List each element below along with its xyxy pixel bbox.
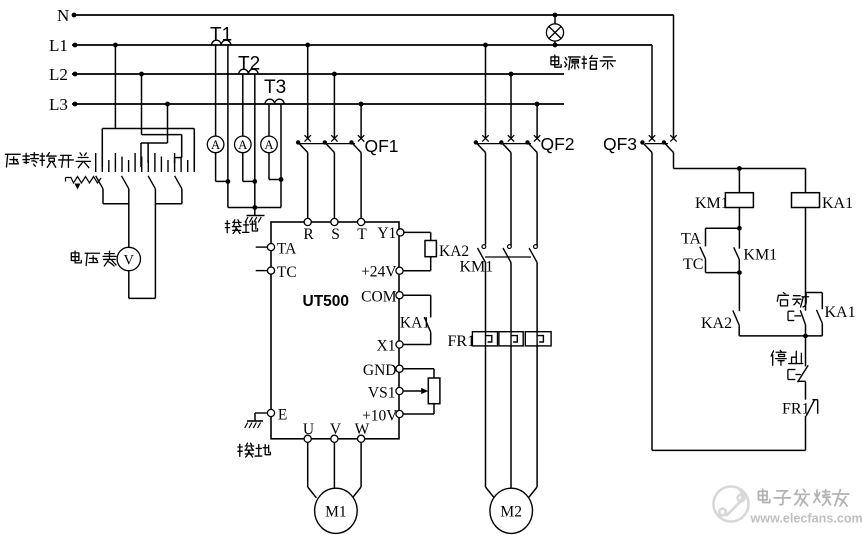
- node L3-switch: [165, 102, 170, 107]
- svg-text:M1: M1: [325, 504, 347, 521]
- node KM1 branch bottom: [737, 270, 742, 275]
- ground (ammeter secondary): [254, 208, 256, 216]
- svg-text:VS1: VS1: [368, 384, 396, 401]
- wire control bottom bus: [652, 449, 806, 451]
- coil KM1: [725, 193, 753, 208]
- wire rail N: [72, 14, 674, 16]
- node L1-switch: [113, 43, 118, 48]
- wire W to M1: [360, 442, 362, 487]
- wire switch feed row1: [102, 128, 194, 130]
- svg-text:A: A: [211, 138, 221, 152]
- wire lamp bottom: [554, 41, 556, 45]
- node L1-QF1: [305, 43, 310, 48]
- svg-text:W: W: [355, 421, 370, 438]
- stub TA: [256, 246, 268, 248]
- node KM1 branch top: [737, 226, 742, 231]
- svg-text:UT500: UT500: [303, 293, 350, 310]
- wire to KM1 coil: [738, 169, 740, 193]
- wire rail L3: [72, 103, 564, 105]
- wiper VS1 arrow: [403, 390, 422, 392]
- watermark logo: [714, 487, 749, 522]
- svg-text:V: V: [330, 421, 342, 438]
- terminal +24V: [396, 267, 403, 274]
- svg-text:+24V: +24V: [361, 263, 397, 280]
- label 接地 (lower): [238, 443, 254, 457]
- svg-text:KM1: KM1: [460, 259, 494, 276]
- svg-text:KA2: KA2: [439, 243, 469, 260]
- wire PA2 to T2 return: [242, 153, 244, 182]
- wire switch bottom bus left: [103, 203, 130, 205]
- wire QF2 pole2 down: [510, 153, 512, 246]
- contact KM1 aux (self hold): [738, 228, 740, 249]
- svg-text:TC: TC: [683, 256, 703, 273]
- rotary switch SA blades: [96, 176, 103, 189]
- svg-text:QF2: QF2: [541, 134, 575, 154]
- svg-text:U: U: [303, 421, 314, 438]
- label 接地 (upper): [225, 220, 241, 234]
- node lamp-N: [553, 13, 558, 18]
- svg-text:A: A: [238, 138, 248, 152]
- ammeter PA1: [207, 136, 224, 153]
- contact TA-TC (inverter relay): [700, 247, 706, 259]
- svg-text:KA1: KA1: [400, 314, 430, 331]
- node lamp-L1: [553, 43, 558, 48]
- breaker QF3: [649, 135, 655, 141]
- wire L3 to QF2 pole3: [536, 104, 538, 139]
- svg-text:www.elecfans.com: www.elecfans.com: [750, 512, 862, 526]
- terminal S: [331, 218, 338, 225]
- svg-text:FR1: FR1: [782, 401, 810, 418]
- node L1-QF2: [483, 43, 488, 48]
- breaker QF2: [482, 135, 488, 141]
- rotary switch SA contact ticks: [95, 153, 97, 172]
- wire FR1 to M2 mid: [510, 346, 512, 490]
- switch handle zigzag: [66, 177, 102, 184]
- terminal X1: [396, 341, 403, 348]
- terminal T: [358, 218, 365, 225]
- node bus-ground: [252, 205, 257, 210]
- terminal TC: [267, 267, 274, 274]
- motor M1: [315, 488, 358, 533]
- svg-text:COM: COM: [361, 288, 397, 305]
- wire lamp top: [554, 15, 556, 24]
- wire L1 to QF1 pole1: [307, 45, 309, 139]
- wire QF3 left rail: [651, 153, 653, 451]
- node N start: [72, 13, 77, 18]
- wire KA2 coil to +24V: [430, 257, 432, 271]
- current transformer T3: [265, 99, 284, 104]
- terminal TA: [267, 244, 274, 251]
- thermal relay FR1 heaters: [472, 332, 497, 346]
- node L1 start: [73, 43, 78, 48]
- ground (E terminal): [255, 412, 267, 414]
- wire TA branch: [706, 227, 740, 229]
- voltmeter PV: [117, 247, 140, 270]
- inverter UT500 box: [271, 222, 399, 439]
- wire QF1 to T: [360, 153, 362, 219]
- node control-rail KM1 tap: [737, 166, 742, 171]
- wire PA1 to T1 return: [215, 153, 217, 182]
- wire QF3 to control rail: [673, 153, 675, 169]
- svg-text:M2: M2: [500, 504, 522, 521]
- contactor KM1 main contacts: [482, 245, 486, 249]
- wire Y1 to KA2 coil: [403, 231, 431, 233]
- motor M2: [490, 488, 533, 533]
- label 启动: [777, 293, 788, 306]
- svg-text:A: A: [264, 138, 274, 152]
- svg-text:TA: TA: [681, 231, 701, 248]
- wire switch feed row2: [142, 134, 182, 136]
- node L2-switch: [139, 72, 144, 77]
- svg-text:N: N: [57, 6, 69, 25]
- stub TC: [256, 270, 268, 272]
- pushbutton 启动 SB1 (NO): [805, 293, 807, 311]
- wire FR1 to M2 right: [536, 346, 538, 487]
- wire N to QF3 pole2: [673, 15, 675, 139]
- node T2 junction: [252, 179, 257, 184]
- svg-text:QF3: QF3: [603, 134, 637, 154]
- wire QF1 to S: [333, 153, 335, 219]
- breaker QF1: [305, 135, 311, 141]
- terminal VS1: [396, 387, 403, 394]
- wire QF2 pole1 down: [485, 153, 487, 245]
- ammeter PA2: [235, 136, 252, 153]
- wire L1 to QF3 pole1: [651, 45, 653, 139]
- wire potentiometer to +10V: [433, 404, 435, 414]
- node T3 junction: [279, 177, 284, 182]
- wire TC branch: [705, 259, 707, 273]
- wire L3 to QF1 pole3: [360, 104, 362, 139]
- wire KA1 coil down: [805, 208, 807, 293]
- wire L1 to QF2 pole1: [485, 45, 487, 139]
- wire PA3 to T3 return: [268, 153, 270, 180]
- terminal Y1: [397, 229, 404, 236]
- svg-text:TC: TC: [277, 264, 297, 281]
- svg-text:FR1: FR1: [448, 333, 476, 350]
- wire QF2 pole3 down: [536, 153, 538, 246]
- wire FR1 to M2 left: [485, 346, 487, 487]
- wire KA1 contact to X1: [430, 332, 432, 344]
- wire COM to KA1 contact: [403, 294, 431, 296]
- wire ammeter common bus: [228, 207, 281, 209]
- svg-text:Y1: Y1: [377, 225, 396, 242]
- contact FR1 (NC): [806, 399, 815, 416]
- node L2-QF1: [332, 72, 337, 77]
- svg-text:L1: L1: [49, 36, 68, 55]
- terminal +10V: [396, 410, 403, 417]
- terminal W: [358, 435, 365, 442]
- svg-text:T: T: [357, 226, 367, 243]
- wire rail to KA1 coil: [805, 169, 807, 193]
- wire L2 tap to switch: [141, 74, 143, 135]
- contact KA2 (NO): [733, 310, 739, 325]
- wire U to M1: [307, 442, 309, 487]
- lamp HL 电源指示: [546, 24, 563, 41]
- label 压转换开关: [5, 154, 20, 167]
- wire switch to voltmeter: [128, 189, 130, 248]
- svg-text:KA1: KA1: [825, 304, 856, 321]
- svg-text:GND: GND: [363, 362, 397, 379]
- terminal COM: [396, 292, 403, 299]
- svg-text:QF1: QF1: [365, 136, 399, 156]
- wire to KA2 contact: [738, 273, 740, 312]
- terminal V: [331, 435, 338, 442]
- wire blade outputs: [102, 189, 104, 204]
- svg-text:TA: TA: [277, 240, 297, 257]
- svg-text:KM1: KM1: [695, 195, 729, 212]
- svg-text:X1: X1: [377, 337, 396, 354]
- svg-text:E: E: [278, 406, 287, 423]
- current transformer T1: [212, 40, 231, 45]
- wire KA1-aux return: [806, 335, 823, 337]
- wire KA2 to start node: [739, 335, 805, 337]
- potentiometer RP: [428, 378, 440, 404]
- wire L2 to QF1 pole2: [333, 74, 335, 139]
- svg-text:S: S: [331, 226, 340, 243]
- wire L1 tap to switch: [114, 45, 116, 129]
- svg-text:V: V: [124, 252, 135, 268]
- wire switch feed row3: [141, 142, 168, 144]
- node L3-QF2: [535, 102, 540, 107]
- wire rail L2: [72, 73, 564, 75]
- terminal R: [304, 218, 311, 225]
- wire L3 tap to switch: [167, 104, 169, 143]
- terminal GND: [396, 365, 403, 372]
- svg-text:KA1: KA1: [822, 195, 853, 212]
- svg-text:L3: L3: [49, 95, 68, 114]
- node T1 junction: [226, 179, 231, 184]
- coil KA1: [792, 193, 820, 208]
- svg-text:KM1: KM1: [743, 247, 777, 264]
- wire QF1 to R: [307, 153, 309, 219]
- wire KA1-aux branch: [806, 292, 823, 294]
- wire KM1 coil down: [738, 208, 740, 229]
- watermark 电子发烧友: [758, 489, 769, 502]
- svg-text:T2: T2: [238, 54, 260, 75]
- svg-text:T1: T1: [210, 25, 232, 46]
- svg-text:R: R: [303, 226, 314, 243]
- node L3 start: [73, 102, 78, 107]
- wire voltmeter return: [128, 271, 130, 299]
- node L3-QF1: [359, 102, 364, 107]
- wire switch bottom bus right: [155, 203, 182, 205]
- svg-text:T3: T3: [264, 77, 286, 98]
- terminal E: [267, 409, 274, 416]
- node L2-QF2: [509, 72, 514, 77]
- current transformer T2: [239, 69, 258, 74]
- wire V to M1: [333, 442, 335, 489]
- label 电压表: [71, 251, 81, 263]
- label 电源指示: [551, 55, 561, 67]
- wire GND to potentiometer: [403, 368, 434, 370]
- terminal U: [304, 435, 311, 442]
- relay coil KA2: [425, 241, 436, 257]
- svg-text:L2: L2: [49, 65, 68, 84]
- contact KA1 (to X1): [424, 317, 430, 332]
- ammeter PA3: [261, 136, 278, 153]
- contact KA1 aux (NO): [817, 310, 823, 324]
- label 停止: [771, 351, 786, 366]
- node start junction: [803, 334, 808, 339]
- wire rail L1: [72, 44, 652, 46]
- wire to stop button: [805, 336, 807, 367]
- svg-text:KA2: KA2: [701, 315, 732, 332]
- wire L2 to QF2 pole2: [510, 74, 512, 139]
- node L2 start: [73, 72, 78, 77]
- pushbutton 停止 SB2 (NC): [798, 365, 809, 382]
